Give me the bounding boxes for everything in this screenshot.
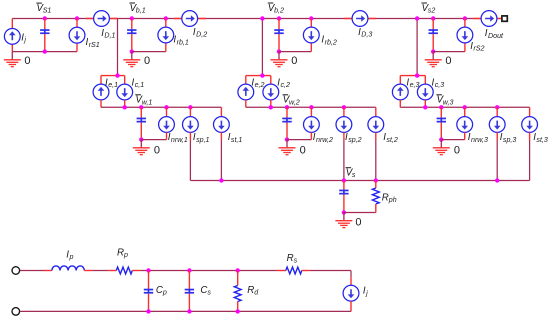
node xyxy=(342,105,346,109)
capacitor C_s xyxy=(185,271,194,312)
junction xyxy=(139,137,143,141)
label I_j xyxy=(21,32,26,44)
label I_rb,1 xyxy=(173,35,188,47)
svg-text:c,3: c,3 xyxy=(435,81,445,89)
svg-text:j: j xyxy=(365,289,368,297)
svg-text:0: 0 xyxy=(144,55,150,67)
wire xyxy=(140,270,277,272)
label R_ph xyxy=(382,192,397,204)
label I_D,3 xyxy=(358,27,372,39)
junction xyxy=(260,73,264,77)
node xyxy=(236,268,240,272)
wire xyxy=(464,132,466,139)
wire xyxy=(270,76,272,85)
wire xyxy=(343,141,345,181)
wire xyxy=(189,141,191,181)
resistor R_d xyxy=(234,286,241,302)
node xyxy=(463,16,467,20)
label I_st,1 xyxy=(228,132,243,144)
wire xyxy=(302,270,310,272)
node V_S1 xyxy=(43,16,47,20)
label I_c,2 xyxy=(277,77,290,89)
wire xyxy=(20,270,44,272)
wire xyxy=(141,139,166,141)
wire xyxy=(100,76,102,85)
wire xyxy=(441,139,464,141)
wire xyxy=(496,132,498,140)
svg-text:s: s xyxy=(207,288,211,296)
svg-text:e,3: e,3 xyxy=(410,81,420,89)
svg-text:c,1: c,1 xyxy=(135,81,145,89)
current source I_e,1 xyxy=(93,84,109,100)
label V_w,3 xyxy=(436,95,453,107)
svg-text:s: s xyxy=(352,171,356,179)
wire xyxy=(343,132,345,140)
label I_p xyxy=(66,250,73,262)
svg-text:0: 0 xyxy=(300,144,306,156)
inductor I_p xyxy=(52,266,84,271)
svg-text:R: R xyxy=(247,285,254,296)
label I_sp,2 xyxy=(345,132,362,144)
wire xyxy=(529,132,531,140)
svg-text:rS2: rS2 xyxy=(473,44,484,52)
wire xyxy=(174,18,206,20)
junction xyxy=(115,73,119,77)
resistor R_ph xyxy=(372,188,379,204)
junction xyxy=(187,309,191,313)
capacitor C_w2 xyxy=(282,107,291,139)
wire xyxy=(529,107,531,116)
svg-text:nrw,1: nrw,1 xyxy=(171,136,188,144)
current source I_c,1 xyxy=(117,84,133,100)
label R_s xyxy=(287,253,298,265)
wire bus V_w,1 xyxy=(101,106,221,108)
label C_s xyxy=(200,285,211,297)
current source I_rb,1 xyxy=(158,27,174,43)
current source I_e,2 xyxy=(238,84,254,100)
wire xyxy=(166,107,168,116)
current source I_st,1 xyxy=(214,117,230,133)
wire xyxy=(92,270,108,272)
label I_sp,3 xyxy=(500,132,517,144)
wire xyxy=(529,141,531,181)
node xyxy=(309,16,313,20)
wire bottom rail s2 xyxy=(433,51,465,53)
wire xyxy=(237,271,239,286)
wire xyxy=(310,107,312,116)
svg-text:D,3: D,3 xyxy=(361,31,372,39)
svg-text:e,2: e,2 xyxy=(255,81,265,89)
svg-text:R: R xyxy=(287,253,294,264)
current source I_c,2 xyxy=(263,84,279,100)
wire xyxy=(220,132,222,140)
wire xyxy=(11,19,13,52)
wire xyxy=(496,107,498,116)
label I_D,2 xyxy=(193,27,207,39)
wire xyxy=(344,212,376,214)
junction xyxy=(130,49,134,53)
wire xyxy=(261,19,263,76)
label I_c,3 xyxy=(432,77,445,89)
label I_e,1 xyxy=(105,77,118,89)
wire bottom rail S1 xyxy=(12,51,77,53)
label I_e,3 xyxy=(406,77,419,89)
current source I_j xyxy=(4,29,20,45)
wire xyxy=(375,181,377,189)
wire xyxy=(399,76,401,85)
ground xyxy=(271,52,288,67)
current source I_sp,2 xyxy=(336,117,352,133)
svg-text:p: p xyxy=(69,253,74,261)
current source I_nrw,3 xyxy=(457,117,473,133)
capacitor C_p xyxy=(144,271,153,312)
ground xyxy=(133,140,150,155)
wire xyxy=(245,76,247,85)
svg-text:sp,3: sp,3 xyxy=(503,136,516,144)
node V_b2 xyxy=(277,16,281,20)
current source I_D,3 xyxy=(352,11,368,27)
node xyxy=(75,16,79,20)
node xyxy=(495,105,499,109)
wire xyxy=(287,139,311,141)
wire xyxy=(416,19,418,76)
wire xyxy=(310,19,312,52)
junction xyxy=(269,105,273,109)
wire bus V_s xyxy=(190,180,529,182)
junction xyxy=(219,178,223,182)
label V_S1 xyxy=(36,3,51,15)
label I_st,2 xyxy=(383,132,398,144)
wire block3 top bar xyxy=(400,75,425,77)
svg-text:b,2: b,2 xyxy=(274,7,284,15)
wire xyxy=(375,204,377,213)
junction xyxy=(423,105,427,109)
node xyxy=(439,105,443,109)
ground xyxy=(335,213,352,228)
node xyxy=(164,105,168,109)
current source I_nrw,1 xyxy=(159,117,175,133)
wire bottom rail b2 xyxy=(279,51,311,53)
wire xyxy=(375,141,377,181)
svg-text:rb,2: rb,2 xyxy=(325,38,337,46)
current source I_st,3 xyxy=(522,117,538,133)
node xyxy=(260,16,264,20)
svg-text:st,2: st,2 xyxy=(386,136,397,144)
wire xyxy=(86,18,118,20)
label V_w,1 xyxy=(135,95,152,107)
label V_s xyxy=(346,168,356,180)
label R_p xyxy=(117,248,128,260)
label V_b1 xyxy=(129,3,145,15)
junction xyxy=(415,73,419,77)
junction xyxy=(285,137,289,141)
ground xyxy=(4,52,21,67)
label I_rS1 xyxy=(86,37,100,49)
wire xyxy=(84,270,92,272)
wire xyxy=(310,132,312,139)
junction xyxy=(123,105,127,109)
terminal xyxy=(12,308,20,316)
label C_p xyxy=(156,285,167,297)
label I_j xyxy=(363,286,368,298)
wire xyxy=(124,76,126,85)
svg-text:s2: s2 xyxy=(428,7,436,15)
svg-text:D,2: D,2 xyxy=(196,31,207,39)
current source I_rb,2 xyxy=(303,27,319,43)
wire xyxy=(124,100,126,108)
wire xyxy=(220,141,222,181)
node V_b1 xyxy=(130,16,134,20)
node xyxy=(187,268,191,272)
wire xyxy=(237,302,239,312)
label R_d xyxy=(247,285,259,297)
wire xyxy=(310,270,351,272)
wire xyxy=(189,107,191,116)
wire xyxy=(399,100,401,108)
svg-text:0: 0 xyxy=(454,144,460,156)
svg-text:rS1: rS1 xyxy=(89,41,100,49)
label I_sp,1 xyxy=(193,132,210,144)
ground xyxy=(279,140,296,155)
svg-text:w,3: w,3 xyxy=(443,98,454,106)
ground xyxy=(123,52,140,67)
svg-text:0: 0 xyxy=(24,55,30,67)
current source I_D,1 xyxy=(94,11,110,27)
wire xyxy=(165,19,167,52)
capacitor C_S1 xyxy=(40,19,49,52)
svg-text:0: 0 xyxy=(154,144,160,156)
svg-text:rb,1: rb,1 xyxy=(177,38,189,46)
label I_Dout xyxy=(485,28,504,40)
wire xyxy=(464,19,466,52)
capacitor C_w1 xyxy=(137,107,146,139)
svg-text:e,1: e,1 xyxy=(108,81,118,89)
current source I_e,3 xyxy=(392,84,408,100)
wire xyxy=(464,107,466,116)
node xyxy=(285,105,289,109)
node xyxy=(309,105,313,109)
svg-text:R: R xyxy=(117,248,124,259)
svg-text:sp,1: sp,1 xyxy=(196,136,209,144)
label I_e,2 xyxy=(251,77,264,89)
junction xyxy=(439,137,443,141)
capacitor C_s2 xyxy=(429,19,438,52)
node xyxy=(146,268,150,272)
current source I_c,3 xyxy=(417,84,433,100)
svg-text:p: p xyxy=(162,288,167,296)
svg-text:st,3: st,3 xyxy=(536,136,547,144)
terminal xyxy=(12,267,20,275)
wire xyxy=(44,270,52,272)
svg-text:w,1: w,1 xyxy=(142,98,153,106)
node xyxy=(188,105,192,109)
resistor R_p xyxy=(116,267,132,274)
wire xyxy=(343,107,345,116)
wire xyxy=(350,271,352,278)
wire bus V_w,3 xyxy=(400,106,529,108)
svg-text:0: 0 xyxy=(355,217,361,229)
label I_st,3 xyxy=(533,132,548,144)
label I_nrw,1 xyxy=(168,132,188,144)
svg-text:nrw,3: nrw,3 xyxy=(471,136,488,144)
svg-text:p: p xyxy=(123,251,128,259)
junction xyxy=(146,309,150,313)
wire xyxy=(350,277,352,285)
current source I_nrw,2 xyxy=(304,117,320,133)
junction xyxy=(277,49,281,53)
label I_c,1 xyxy=(132,77,145,89)
svg-text:s: s xyxy=(294,257,298,265)
wire xyxy=(277,270,286,272)
svg-text:Dout: Dout xyxy=(488,32,504,40)
wire xyxy=(424,76,426,85)
wire xyxy=(375,132,377,140)
wire xyxy=(132,270,140,272)
svg-text:w,2: w,2 xyxy=(289,98,300,106)
terminal square xyxy=(502,16,507,21)
junction xyxy=(495,178,499,182)
svg-text:j: j xyxy=(23,36,26,44)
ground xyxy=(433,140,450,155)
wire xyxy=(108,270,116,272)
current source I_D,2 xyxy=(182,11,198,27)
label I_D,1 xyxy=(101,28,115,40)
wire xyxy=(220,107,222,116)
current source I_sp,3 xyxy=(489,117,505,133)
node xyxy=(463,105,467,109)
junction xyxy=(431,49,435,53)
current source I_sp,1 xyxy=(183,117,199,133)
wire xyxy=(189,132,191,140)
current source I_rS1 xyxy=(69,27,85,43)
wire xyxy=(166,132,168,139)
svg-text:D,1: D,1 xyxy=(104,32,115,40)
node V_s2 xyxy=(431,16,435,20)
ground xyxy=(425,52,442,67)
junction xyxy=(342,178,346,182)
svg-text:sp,2: sp,2 xyxy=(348,136,361,144)
wire xyxy=(344,18,376,20)
wire xyxy=(496,141,498,181)
label V_b2 xyxy=(268,3,284,15)
svg-text:S1: S1 xyxy=(43,7,52,15)
wire block1 top bar xyxy=(101,75,125,77)
wire top rail xyxy=(12,18,497,20)
junction xyxy=(236,309,240,313)
label I_nrw,2 xyxy=(313,132,333,144)
wire xyxy=(100,100,102,108)
node xyxy=(164,16,168,20)
svg-text:R: R xyxy=(382,192,389,203)
svg-text:c,2: c,2 xyxy=(281,81,291,89)
junction xyxy=(342,210,346,214)
capacitor C_s bus xyxy=(339,181,348,213)
current source I_Dout xyxy=(481,11,497,27)
junction xyxy=(374,178,378,182)
wire xyxy=(76,19,78,52)
svg-text:0: 0 xyxy=(445,55,451,67)
label I_rb,2 xyxy=(321,35,336,47)
wire xyxy=(473,18,501,20)
label V_w,2 xyxy=(283,95,300,107)
resistor R_s xyxy=(286,267,302,274)
current source I_st,2 xyxy=(368,117,384,133)
wire xyxy=(270,100,272,108)
current source I_rS2 xyxy=(457,27,473,43)
node xyxy=(139,105,143,109)
wire bottom rail xyxy=(20,310,351,312)
label V_s2 xyxy=(421,3,435,15)
wire bottom rail b1 xyxy=(132,51,166,53)
wire bus V_w,2 xyxy=(246,106,376,108)
svg-text:0: 0 xyxy=(291,55,297,67)
label I_rS2 xyxy=(470,41,484,53)
node xyxy=(415,16,419,20)
wire xyxy=(117,19,119,76)
current source I_j out xyxy=(343,285,359,301)
capacitor C_b2 xyxy=(274,19,283,52)
svg-text:b,1: b,1 xyxy=(136,7,146,15)
junction xyxy=(43,49,47,53)
svg-text:st,1: st,1 xyxy=(231,136,242,144)
wire xyxy=(424,100,426,108)
wire xyxy=(245,100,247,108)
wire block2 top bar xyxy=(246,75,271,77)
capacitor C_b1 xyxy=(127,19,136,52)
wire xyxy=(375,107,377,116)
svg-text:ph: ph xyxy=(388,196,397,204)
capacitor C_w3 xyxy=(437,107,446,139)
wire xyxy=(350,301,352,311)
label I_nrw,3 xyxy=(468,132,488,144)
svg-text:nrw,2: nrw,2 xyxy=(316,136,333,144)
